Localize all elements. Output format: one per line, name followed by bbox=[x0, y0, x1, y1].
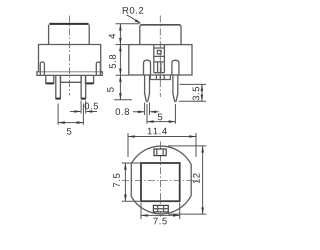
body flange front bbox=[37, 72, 102, 76]
chain dimension line bbox=[119, 24, 121, 100]
body side bbox=[129, 45, 192, 75]
dim 7.5 (left of bottom view) bbox=[122, 163, 140, 201]
dim 12 (right of bottom view) bbox=[168, 146, 206, 214]
pin left front bbox=[56, 75, 61, 98]
slot right inside body bbox=[96, 62, 100, 75]
slot left inside body bbox=[40, 62, 44, 75]
button cap side bbox=[140, 25, 181, 45]
ext body bottom bbox=[116, 74, 129, 76]
center protrusion below body bbox=[150, 75, 170, 80]
label 5.8 bbox=[109, 55, 116, 69]
round body outline with side flats bbox=[131, 146, 191, 214]
dim 11.4 (top of bottom view) bbox=[128, 133, 196, 157]
R0.2 label bbox=[123, 7, 143, 14]
center plate bbox=[61, 75, 82, 82]
centerline front view bbox=[69, 16, 71, 96]
dim 7.5 (bottom of bottom view) bbox=[141, 203, 180, 219]
ext body top bbox=[116, 44, 129, 46]
dim 3.5 (right) bbox=[179, 84, 206, 101]
top tab bbox=[154, 149, 166, 156]
dim 5 (front pin spacing) bbox=[58, 104, 83, 125]
pin left side view bbox=[145, 75, 150, 102]
horizontal centerline bottom view bbox=[122, 180, 199, 182]
label 4 bbox=[109, 34, 116, 39]
pin slot right in body bbox=[172, 60, 179, 75]
pin right front bbox=[81, 75, 86, 98]
left foot bbox=[46, 75, 54, 83]
dim 0.5 (front pin width) bbox=[81, 101, 86, 114]
arrows 5.8 bbox=[119, 45, 122, 52]
centerline side view bbox=[159, 16, 161, 98]
inner square (stem base) bbox=[141, 163, 180, 201]
ext cap top bbox=[116, 23, 140, 25]
bottom tab bbox=[153, 205, 168, 212]
dim 5 (side pin spacing) bbox=[147, 104, 175, 124]
pin slot left in body bbox=[144, 60, 151, 75]
ext pin tip bbox=[114, 99, 132, 101]
arrows 5 bbox=[119, 75, 122, 82]
right foot bbox=[85, 75, 93, 83]
label 5 bbox=[107, 87, 114, 92]
body front bbox=[39, 45, 101, 72]
center column in body bbox=[154, 45, 165, 73]
button cap front bbox=[49, 23, 88, 25]
R0.2 leader bbox=[127, 15, 140, 23]
vertical centerline bottom view bbox=[160, 142, 162, 219]
arrows 4 bbox=[119, 24, 122, 31]
dim 0.8 (side pin width) bbox=[145, 103, 150, 116]
pin right side view bbox=[173, 75, 178, 102]
